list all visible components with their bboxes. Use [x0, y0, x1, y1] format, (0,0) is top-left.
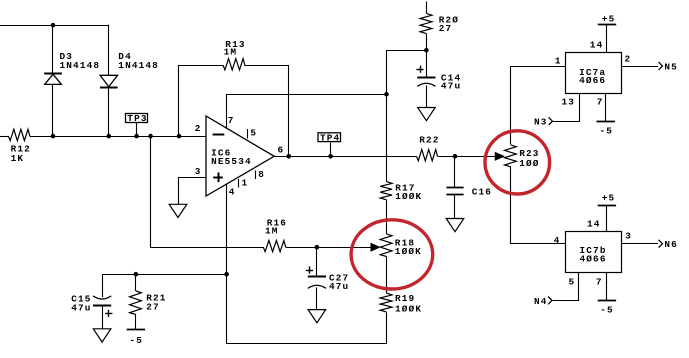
- wire IC7a pin13: [553, 94, 580, 122]
- label R18 designator: [395, 238, 415, 249]
- svg-text:3: 3: [195, 166, 202, 177]
- label node N5: [664, 62, 678, 73]
- ground below C15: [93, 329, 111, 342]
- svg-text:1N4148: 1N4148: [60, 60, 101, 71]
- svg-text:7: 7: [596, 277, 603, 288]
- svg-text:27: 27: [439, 23, 453, 34]
- wire C27 to ground: [316, 287, 318, 309]
- junction R16-net/C27: [315, 245, 320, 250]
- wire TP4 stub: [330, 142, 332, 156]
- svg-text:3: 3: [625, 231, 632, 242]
- label R21 value: [146, 301, 160, 312]
- label IC6 pin 6: [278, 144, 285, 155]
- label D3 value: [60, 60, 101, 71]
- wire R20 bottom lead: [426, 34, 428, 51]
- svg-text:1M: 1M: [265, 225, 279, 236]
- label D4 value: [118, 60, 159, 71]
- svg-text:-5: -5: [130, 335, 144, 346]
- wire +V riser: [426, 2, 428, 14]
- power -5 below IC7a: [597, 121, 615, 123]
- pin 1 tick: [238, 179, 240, 188]
- wire IC6 pin4 / V- net: [227, 184, 387, 344]
- resistor R22: [417, 150, 438, 161]
- wire R23 to IC7b pin4: [511, 167, 566, 244]
- label IC6 pin 3: [195, 166, 202, 177]
- ground below C16: [446, 219, 464, 232]
- label R17 value: [395, 191, 422, 202]
- junction top rail / D3: [51, 23, 56, 28]
- wire R17-R18: [386, 200, 388, 234]
- wire pin7 net vertical: [386, 50, 388, 181]
- svg-text:R22: R22: [419, 135, 439, 146]
- svg-text:4Ø66: 4Ø66: [580, 253, 607, 264]
- wire branch to R16: [151, 137, 264, 248]
- resistor R19: [380, 293, 392, 312]
- label IC7a pin 14: [590, 40, 604, 51]
- svg-text:C16: C16: [472, 187, 492, 198]
- svg-text:1: 1: [242, 178, 249, 189]
- svg-text:4Ø66: 4Ø66: [579, 75, 606, 86]
- wire R21 to -5: [135, 315, 137, 330]
- label IC7b pin 3: [625, 231, 632, 242]
- label D3 designator: [60, 51, 74, 62]
- label R16 designator: [267, 218, 287, 229]
- test point TP3: [126, 113, 148, 124]
- wire R23 net: [511, 67, 566, 145]
- label -5 IC7b: [600, 305, 614, 316]
- svg-text:1ØØK: 1ØØK: [395, 191, 422, 202]
- resistor R13: [223, 59, 245, 70]
- node N4 arrow: [548, 297, 552, 305]
- label D4 designator: [118, 51, 132, 62]
- diode D4: [100, 75, 118, 87]
- wire IC7b pin7: [606, 272, 608, 300]
- label IC7a pin 7: [597, 96, 604, 107]
- wire R16 to R18 wiper: [286, 247, 372, 249]
- ground below C27: [308, 310, 326, 323]
- label R20 designator: [439, 15, 459, 26]
- junction V-net/C15 row: [224, 272, 229, 277]
- wire D4 top lead: [108, 25, 110, 76]
- label IC6 pin 1: [242, 178, 249, 189]
- label node N4: [534, 296, 548, 307]
- label IC7a designator: [579, 67, 606, 78]
- wire IC7a pin2 to N5: [621, 66, 658, 68]
- junction R20/C14: [424, 48, 429, 53]
- wire R20 node to pin7 net: [387, 50, 427, 52]
- wire IC6 pin7 lead: [227, 95, 387, 129]
- svg-text:TP4: TP4: [320, 133, 340, 144]
- svg-text:2: 2: [195, 123, 202, 134]
- label R18 value: [395, 246, 422, 257]
- wire IC7b pin14: [606, 206, 608, 231]
- svg-text:47u: 47u: [441, 81, 461, 92]
- svg-text:TP3: TP3: [127, 113, 147, 124]
- junction main/feedback: [177, 134, 182, 139]
- label -5 IC7a: [600, 126, 614, 137]
- label IC7a pin 1: [555, 56, 562, 67]
- label R13 designator: [225, 39, 245, 50]
- svg-text:-5: -5: [600, 126, 614, 137]
- wire C16 to ground: [454, 194, 456, 218]
- wire main input net: [30, 136, 206, 138]
- wire IC7a pin14: [606, 24, 608, 53]
- wire feedback right: [245, 66, 289, 157]
- wire D3 top lead: [52, 25, 54, 73]
- wire R21 top lead: [135, 274, 137, 291]
- junction pin7 net: [384, 92, 389, 97]
- op-amp U-IC6: [206, 116, 274, 196]
- label C27 value: [329, 281, 349, 292]
- wire D4 bottom lead: [108, 87, 110, 136]
- highlight circle around R18: [351, 220, 433, 289]
- power -5 below IC7b: [598, 300, 616, 302]
- label R22 designator: [419, 135, 439, 146]
- junction main/D4: [107, 134, 112, 139]
- label C14 value: [441, 81, 461, 92]
- label IC6 pin 5: [250, 128, 257, 139]
- svg-text:N6: N6: [664, 239, 678, 250]
- label IC7a value: [579, 75, 606, 86]
- svg-text:1ØØK: 1ØØK: [395, 304, 422, 315]
- svg-text:+5: +5: [602, 193, 616, 204]
- label +5 IC7a: [602, 13, 616, 24]
- junction feedback/output: [287, 154, 292, 159]
- wiper arrow of R18: [371, 243, 381, 251]
- label IC6 pin 4: [229, 187, 236, 198]
- label R19 value: [395, 304, 422, 315]
- label IC6 pin 8: [258, 169, 265, 180]
- resistor R18 (trimmer): [380, 234, 392, 257]
- label R17 designator: [395, 183, 415, 194]
- label IC7b pin 7: [596, 277, 603, 288]
- wire C15 row: [102, 274, 227, 276]
- svg-text:R19: R19: [395, 293, 415, 304]
- test point TP4: [318, 133, 341, 144]
- wire C15 to ground: [102, 306, 104, 329]
- label IC7b value: [580, 253, 607, 264]
- analog switch IC7a: [566, 53, 622, 94]
- label IC7a pin 2: [625, 54, 632, 65]
- svg-text:14: 14: [587, 219, 601, 230]
- svg-text:+5: +5: [602, 13, 616, 24]
- svg-text:4: 4: [229, 187, 236, 198]
- wire input left lead: [0, 136, 8, 138]
- svg-text:1K: 1K: [11, 153, 25, 164]
- diode D3: [44, 74, 62, 85]
- capacitor C14: [416, 50, 435, 86]
- label IC6 pin 7: [228, 115, 235, 126]
- node N3 arrow: [549, 117, 553, 125]
- label IC6 pin 2: [195, 123, 202, 134]
- label IC7b pin 4: [554, 235, 561, 246]
- ground at IC6 pin3: [169, 204, 187, 217]
- junction main/D3: [51, 134, 56, 139]
- resistor R16: [263, 240, 285, 251]
- wire R18-R19: [386, 257, 388, 294]
- label C27 designator: [329, 273, 349, 284]
- wire IC7a pin7: [605, 94, 607, 121]
- svg-text:N3: N3: [534, 117, 548, 128]
- power +5 above IC7b: [598, 205, 616, 207]
- resistor R12: [8, 129, 29, 140]
- label IC7a pin 13: [562, 96, 576, 107]
- label IC7b designator: [580, 245, 607, 256]
- svg-text:13: 13: [562, 96, 576, 107]
- svg-text:-5: -5: [600, 305, 614, 316]
- capacitor C15: [93, 274, 112, 317]
- label -5 below R21: [130, 335, 144, 346]
- label +5 IC7b: [602, 193, 616, 204]
- label R12 value: [11, 153, 25, 164]
- resistor R17: [380, 182, 392, 200]
- capacitor C16: [446, 156, 463, 194]
- wire node to R23 wiper: [455, 156, 496, 158]
- label R12 designator: [11, 143, 31, 154]
- svg-text:14: 14: [590, 40, 604, 51]
- junction R22/C16: [453, 154, 458, 159]
- wire top rail: [0, 25, 109, 27]
- wire output net: [274, 156, 416, 158]
- wiper arrow of R23: [495, 152, 505, 160]
- svg-text:6: 6: [278, 144, 285, 155]
- label R20 value: [439, 23, 453, 34]
- svg-text:1M: 1M: [224, 46, 238, 57]
- wire D3 bottom lead: [52, 84, 54, 136]
- svg-text:N5: N5: [664, 62, 678, 73]
- label node N6: [664, 239, 678, 250]
- wire TP3 stub: [136, 122, 138, 136]
- svg-text:5: 5: [250, 128, 257, 139]
- label IC6 value: [211, 156, 252, 167]
- svg-text:7: 7: [597, 96, 604, 107]
- label C14 designator: [441, 72, 461, 83]
- label C15 value: [71, 302, 91, 313]
- resistor R20: [420, 13, 432, 33]
- ground below C14: [418, 108, 436, 121]
- label C15 designator: [71, 294, 91, 305]
- resistor R23 (trimmer): [505, 145, 517, 167]
- junction main/TP3: [134, 134, 139, 139]
- svg-text:1ØØK: 1ØØK: [395, 246, 422, 257]
- svg-text:47u: 47u: [71, 302, 91, 313]
- power -5 below R21: [127, 329, 145, 331]
- svg-text:1N4148: 1N4148: [118, 60, 159, 71]
- svg-text:N4: N4: [534, 296, 548, 307]
- power +5 above IC7a: [598, 24, 616, 26]
- svg-text:NE5534: NE5534: [211, 156, 252, 167]
- svg-text:1: 1: [555, 56, 562, 67]
- label R23 value: [519, 158, 539, 169]
- analog switch IC7b: [566, 232, 622, 273]
- node N6 arrow: [659, 240, 663, 248]
- svg-text:4: 4: [554, 235, 561, 246]
- capacitor C27: [306, 247, 326, 288]
- svg-text:8: 8: [258, 169, 265, 180]
- svg-text:5: 5: [569, 277, 576, 288]
- junction C15row/R21: [134, 272, 139, 277]
- svg-text:47u: 47u: [329, 281, 349, 292]
- svg-text:7: 7: [228, 115, 235, 126]
- label R13 value: [224, 46, 238, 57]
- wire IC6 pin3 to ground: [179, 178, 207, 205]
- label node N3: [534, 117, 548, 128]
- pin 8 tick: [255, 171, 257, 180]
- junction output/TP4: [328, 154, 333, 159]
- wire C14 to ground: [426, 85, 428, 107]
- label IC7b pin 14: [587, 219, 601, 230]
- svg-text:2: 2: [625, 54, 632, 65]
- highlight circle around R23: [485, 131, 550, 194]
- label IC6 designator: [211, 147, 231, 158]
- node N5 arrow: [659, 62, 663, 70]
- wire R22 to node: [438, 156, 456, 158]
- svg-text:27: 27: [146, 301, 160, 312]
- resistor R21: [130, 291, 142, 315]
- wire IC7b pin5: [553, 273, 579, 301]
- label R16 value: [265, 225, 279, 236]
- label R19 designator: [395, 293, 415, 304]
- junction main/R16-branch: [148, 134, 153, 139]
- label IC7b pin 5: [569, 277, 576, 288]
- label R21 designator: [146, 293, 166, 304]
- wire feedback net: [179, 66, 224, 137]
- wire IC7b pin3 to N6: [622, 243, 658, 245]
- svg-text:1ØØ: 1ØØ: [519, 158, 539, 169]
- label C16 designator: [472, 187, 492, 198]
- label R23 designator: [519, 148, 539, 159]
- pin 5 tick: [247, 129, 249, 139]
